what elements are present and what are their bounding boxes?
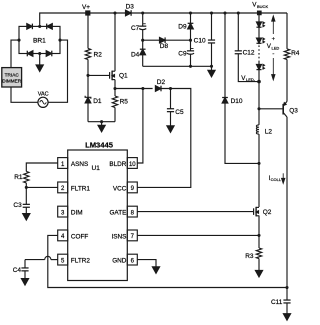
svg-text:C7: C7 bbox=[131, 25, 140, 32]
node C10 at rail bbox=[210, 11, 213, 14]
svg-text:BUCK: BUCK bbox=[257, 4, 268, 9]
pin 10 BLDR bbox=[109, 158, 137, 169]
BR1 diode top-right bbox=[47, 24, 53, 30]
svg-text:R3: R3 bbox=[245, 253, 254, 260]
ground C11 bbox=[283, 303, 290, 320]
svg-text:R4: R4 bbox=[291, 50, 300, 57]
node LED minus bbox=[257, 80, 261, 84]
capacitor C10 bbox=[194, 13, 215, 45]
wire R1 to C3 bbox=[25, 183, 27, 205]
resistor R1 bbox=[14, 171, 29, 183]
capacitor C3 bbox=[13, 202, 30, 209]
wire BLDR vertical bbox=[137, 89, 143, 164]
wire FLTR2 with hop bbox=[25, 256, 58, 259]
pin 7 ISNS bbox=[111, 230, 137, 241]
wire D1/R5 ground rail bbox=[88, 120, 115, 123]
wire D2 to VCC corner bbox=[137, 89, 191, 188]
capacitor C5 bbox=[167, 89, 184, 116]
node FLTR1 junction bbox=[25, 186, 28, 189]
wire Q3 collector down bbox=[286, 117, 288, 288]
dotted wire more LEDs bbox=[258, 45, 260, 60]
capacitor C7 bbox=[131, 13, 146, 32]
svg-text:C12: C12 bbox=[243, 50, 255, 57]
wire C12 to LED minus bbox=[238, 54, 259, 82]
node valley mid-left bbox=[141, 39, 144, 42]
ground C5 bbox=[167, 112, 174, 133]
svg-text:VAC: VAC bbox=[38, 92, 49, 98]
wire GATE pin to Q2 bbox=[137, 211, 253, 213]
node BR1 plus bbox=[38, 25, 41, 28]
svg-text:V+: V+ bbox=[82, 4, 90, 11]
wire Q3 base bbox=[259, 108, 283, 110]
svg-text:LM3445: LM3445 bbox=[85, 140, 114, 149]
svg-text:BR1: BR1 bbox=[33, 38, 46, 45]
capacitor C12 bbox=[235, 13, 255, 57]
svg-text:COLL: COLL bbox=[271, 177, 282, 182]
wire D9 to C9 bbox=[190, 29, 192, 51]
svg-text:D2: D2 bbox=[157, 79, 166, 86]
ground below BR1 bbox=[36, 54, 43, 72]
svg-text:Q2: Q2 bbox=[263, 209, 272, 216]
node switch junction bbox=[257, 162, 260, 165]
node D10 at rail bbox=[223, 11, 226, 14]
svg-text:L2: L2 bbox=[265, 128, 273, 135]
node BR1 ac left bbox=[17, 39, 20, 42]
svg-text:ISNS: ISNS bbox=[111, 233, 126, 240]
wire BR1 to top rail bbox=[40, 13, 287, 26]
pin 5 FLTR2 bbox=[58, 254, 91, 265]
svg-text:R1: R1 bbox=[14, 174, 23, 181]
pin 1 ASNS bbox=[58, 158, 89, 169]
wire Q1 drain bbox=[114, 13, 116, 71]
node valley-fill left at rail bbox=[141, 11, 144, 14]
node COFF/C11 junction bbox=[285, 286, 288, 289]
svg-text:Q3: Q3 bbox=[289, 107, 298, 114]
node Q3 base junction bbox=[257, 107, 260, 110]
svg-text:D9: D9 bbox=[178, 23, 187, 30]
ground D1/R5 bbox=[98, 122, 105, 132]
capacitor C11 bbox=[271, 288, 291, 307]
LED 1 bbox=[256, 22, 264, 27]
svg-text:-: - bbox=[272, 50, 274, 57]
node ISNS junction bbox=[257, 234, 260, 237]
wire Q2 source bbox=[258, 216, 260, 249]
pin 2 FLTR1 bbox=[58, 182, 91, 193]
svg-text:C5: C5 bbox=[175, 109, 184, 116]
transistor Q3 bbox=[283, 101, 298, 117]
wire C7 to D4 bbox=[142, 29, 144, 49]
wire VAC to BR1 right bbox=[48, 40, 67, 102]
pin 8 GATE bbox=[109, 206, 137, 217]
diode D3 bbox=[126, 3, 135, 16]
wire R5 to ground rail bbox=[114, 108, 116, 122]
svg-text:COFF: COFF bbox=[71, 233, 88, 240]
node VBUCK bbox=[252, 2, 268, 16]
BR1 diode top-left bbox=[27, 24, 33, 30]
svg-text:D4: D4 bbox=[131, 51, 140, 58]
resistor R5 bbox=[112, 89, 128, 108]
wire VBUCK to LED1 bbox=[258, 13, 260, 22]
capacitor C4 bbox=[13, 260, 29, 274]
wire R2 to D1 bbox=[87, 60, 89, 98]
svg-text:C10: C10 bbox=[194, 38, 206, 45]
svg-text:DIM: DIM bbox=[71, 210, 83, 217]
wire C9 to bottom rail bbox=[190, 54, 192, 67]
op-amp U1 LM3445 body bbox=[68, 140, 128, 280]
ground C4 bbox=[21, 271, 28, 285]
bridge rectifier BR1 bbox=[19, 26, 60, 53]
node C12 at rail bbox=[237, 11, 240, 14]
node BLDR branch bbox=[141, 87, 144, 90]
wire LED1 to LED2 bbox=[258, 27, 260, 38]
svg-text:C3: C3 bbox=[13, 202, 22, 209]
BR1 diode bottom-right bbox=[46, 51, 52, 57]
node BR1 minus bbox=[38, 52, 41, 55]
resistor R2 bbox=[85, 48, 102, 59]
svg-text:ASNS: ASNS bbox=[71, 161, 88, 168]
svg-text:VCC: VCC bbox=[113, 185, 127, 192]
svg-text:R5: R5 bbox=[120, 99, 129, 106]
annotation VLED voltage bbox=[267, 16, 280, 79]
diode D4 bbox=[131, 49, 146, 58]
TRIAC dimmer box bbox=[2, 68, 22, 87]
transistor Q1 bbox=[110, 71, 128, 81]
svg-text:TRIAC: TRIAC bbox=[5, 72, 20, 77]
svg-text:BLDR: BLDR bbox=[109, 161, 126, 168]
node D9 at rail bbox=[189, 11, 192, 14]
svg-text:GATE: GATE bbox=[109, 210, 126, 217]
svg-text:C11: C11 bbox=[271, 299, 283, 306]
svg-text:FLTR1: FLTR1 bbox=[71, 185, 91, 192]
wire gate junction to Q1 bbox=[88, 74, 110, 76]
wire BR1 left to dimmer bbox=[11, 40, 19, 68]
wire D1 to ground rail bbox=[87, 103, 89, 122]
ground C3 bbox=[23, 207, 30, 220]
wire D4 to bottom rail bbox=[142, 55, 144, 67]
source VAC bbox=[38, 92, 49, 108]
ground GND pin bbox=[152, 267, 159, 274]
svg-text:Q1: Q1 bbox=[119, 72, 128, 79]
svg-text:D10: D10 bbox=[231, 98, 243, 105]
wire ISNS pin to junction bbox=[137, 234, 259, 236]
wire V+ down to R2 bbox=[87, 13, 89, 48]
node C5 branch bbox=[169, 87, 172, 90]
svg-text:C9: C9 bbox=[178, 50, 187, 57]
svg-text:R2: R2 bbox=[94, 51, 103, 58]
zener diode D1 bbox=[85, 96, 102, 105]
wire rail to R4 bbox=[286, 13, 288, 49]
diode D10 bbox=[222, 13, 243, 105]
net label VLED- bbox=[241, 75, 255, 82]
svg-text:D3: D3 bbox=[126, 3, 135, 10]
node valley mid-right bbox=[189, 39, 192, 42]
wire COFF down and across bbox=[48, 235, 287, 287]
svg-text:FLTR2: FLTR2 bbox=[71, 258, 91, 265]
LED 2 bbox=[256, 38, 264, 43]
annotation ICOLL current bbox=[269, 173, 285, 183]
node BR1 ac right bbox=[58, 39, 61, 42]
svg-text:D1: D1 bbox=[93, 98, 102, 105]
capacitor C9 bbox=[178, 48, 194, 57]
ground R3 bbox=[255, 259, 262, 277]
diode D2 bbox=[155, 79, 165, 91]
node Q1 drain at rail bbox=[113, 11, 116, 14]
wire Q1 source bbox=[114, 80, 116, 89]
ground valley-fill bbox=[208, 66, 215, 77]
wire to LED3 bbox=[258, 61, 260, 65]
wire D10 to switch node bbox=[225, 103, 259, 163]
diode D8 bbox=[143, 37, 191, 50]
inductor L2 bbox=[256, 125, 272, 136]
pin 6 GND bbox=[112, 254, 137, 265]
pin 3 DIM bbox=[58, 206, 83, 217]
pin 9 VCC bbox=[113, 182, 137, 193]
wire GND pin to ground bbox=[137, 260, 156, 267]
wire C10 to bottom rail bbox=[211, 43, 213, 66]
svg-text:D8: D8 bbox=[160, 43, 169, 50]
svg-text:DIMMER: DIMMER bbox=[2, 79, 22, 84]
node V+ bbox=[82, 4, 90, 16]
pin 4 COFF bbox=[58, 230, 89, 241]
wire ASNS to R1 bbox=[26, 163, 57, 171]
wire L2 to Q2 drain bbox=[258, 134, 260, 207]
svg-text:10: 10 bbox=[129, 162, 136, 168]
wire Q1 source to D2 bbox=[115, 88, 153, 90]
node Q1 gate junction bbox=[86, 74, 89, 77]
svg-text:GND: GND bbox=[112, 258, 127, 265]
diode D9 bbox=[178, 13, 193, 30]
transistor Q2 bbox=[254, 207, 272, 217]
BR1 diode bottom-left bbox=[27, 51, 33, 57]
wire LED3 to LED minus node bbox=[258, 70, 260, 82]
LED 3 bbox=[256, 64, 264, 69]
resistor R3 bbox=[245, 248, 262, 260]
wire dimmer to VAC bbox=[11, 87, 38, 102]
resistor R4 bbox=[284, 49, 299, 60]
svg-text:LED-: LED- bbox=[246, 77, 256, 82]
svg-text:C4: C4 bbox=[13, 267, 22, 274]
valley-fill bottom rail bbox=[143, 65, 213, 68]
node Q1 source junction bbox=[113, 87, 116, 90]
wire FLTR1 bbox=[26, 186, 57, 188]
wire R4 to Q3 emitter bbox=[286, 60, 288, 102]
wire LED minus to L2 bbox=[258, 82, 260, 125]
svg-text:U1: U1 bbox=[92, 165, 101, 172]
